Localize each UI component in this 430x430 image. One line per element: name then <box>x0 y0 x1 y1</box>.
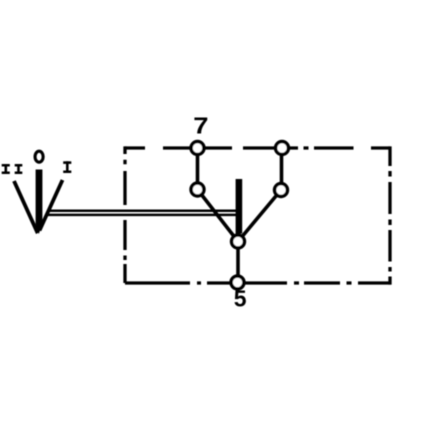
svg-text:7: 7 <box>193 114 208 139</box>
svg-text:5: 5 <box>234 286 247 312</box>
